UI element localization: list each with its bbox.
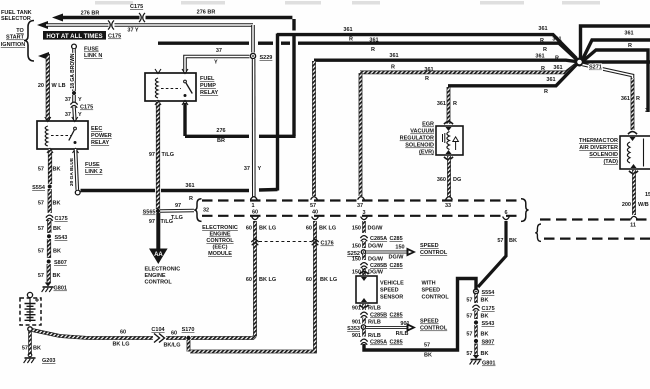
wire 361 R line A (277, 34, 577, 137)
wire 60 BK LG pin 40 down (190, 221, 315, 352)
svg-text:1: 1 (251, 203, 254, 209)
connector C104 (151, 327, 165, 343)
svg-text:S543: S543 (482, 321, 495, 327)
svg-text:361: 361 (553, 65, 562, 71)
svg-text:361: 361 (621, 96, 630, 102)
pin 6 (503, 210, 510, 220)
splice S565 (143, 209, 161, 216)
dashed connector line 1 right (540, 218, 650, 220)
label 361 R lower (185, 183, 194, 202)
label 361 R line B (369, 37, 561, 54)
svg-text:361: 361 (437, 101, 446, 107)
svg-text:R: R (636, 96, 640, 102)
svg-text:60: 60 (252, 210, 258, 216)
svg-text:57: 57 (38, 249, 44, 255)
wire 97 T/LG relay to S565 (156, 101, 160, 209)
splice S170 (182, 327, 195, 340)
svg-text:S554: S554 (482, 290, 496, 296)
wire 20 W LB (38, 52, 49, 120)
svg-text:ENGINE: ENGINE (145, 273, 166, 279)
svg-text:97: 97 (149, 219, 155, 225)
ground G203 (24, 353, 56, 364)
svg-text:R/LB: R/LB (368, 306, 381, 312)
svg-text:C285: C285 (390, 340, 403, 346)
wire 361 R to TAD (583, 65, 633, 131)
svg-text:276 BR: 276 BR (197, 10, 216, 16)
label 200 W/B (622, 202, 649, 208)
pin 40 (312, 210, 319, 220)
svg-text:DG/W: DG/W (389, 255, 405, 261)
svg-text:S271: S271 (589, 65, 602, 71)
relay EEC POWER RELAY box (37, 117, 88, 153)
scan noise top edge (95, 1, 600, 5)
svg-text:361: 361 (552, 37, 561, 43)
svg-text:Y: Y (78, 97, 82, 103)
svg-text:G801: G801 (54, 286, 67, 292)
pin 60 (252, 210, 259, 220)
svg-text:S229: S229 (260, 55, 273, 61)
svg-text:(EEC): (EEC) (213, 245, 228, 251)
label 60 BK LG (pin40 top) (306, 226, 336, 232)
svg-text:REGULATOR: REGULATOR (400, 136, 434, 142)
svg-text:W LB: W LB (52, 83, 66, 89)
pin 11 (630, 216, 637, 228)
svg-text:C285A: C285A (370, 236, 387, 242)
svg-text:11: 11 (630, 223, 636, 229)
svg-text:C175: C175 (482, 306, 495, 312)
wire 901 R/LB (352, 318, 381, 326)
svg-text:6: 6 (504, 210, 507, 216)
svg-text:RELAY: RELAY (200, 90, 218, 96)
svg-text:BK: BK (481, 332, 489, 338)
arrow 150 DG/W to speed control (366, 245, 416, 261)
wire 361 R line E (448, 65, 577, 86)
label S271 (589, 65, 602, 71)
solenoid EGR VACUUM REGULATOR (EVR) box (436, 122, 463, 160)
svg-text:57: 57 (310, 203, 316, 209)
label ELECTRONIC ENGINE CONTROL (EEC) MODULE (202, 225, 238, 257)
wire 37 Y relay to S229 (185, 57, 250, 73)
svg-text:60: 60 (246, 226, 252, 232)
splice S252 (347, 250, 366, 257)
svg-text:150: 150 (352, 226, 361, 232)
svg-text:ELECTRONIC: ELECTRONIC (202, 225, 238, 231)
svg-text:WITH: WITH (422, 281, 436, 287)
label FUEL TANK SELECTOR (1, 10, 32, 22)
label 37 Y lower (244, 166, 262, 172)
right section bracket (535, 224, 541, 241)
wire 150 DG/W (352, 241, 384, 250)
svg-text:POWER: POWER (91, 133, 112, 139)
wire 57 BK (38, 264, 61, 283)
label VEHICLE SPEED SENSOR (380, 281, 404, 301)
svg-text:57: 57 (38, 226, 44, 232)
label SPEED CONTROL lower (420, 319, 448, 332)
svg-text:37: 37 (65, 112, 71, 118)
svg-text:20: 20 (38, 83, 44, 89)
svg-text:ENGINE: ENGINE (209, 232, 230, 238)
label FUEL PUMP RELAY (200, 76, 218, 96)
label TO START IGNITION (1, 28, 25, 48)
fuel pump relay contact (161, 80, 192, 97)
svg-text:VEHICLE: VEHICLE (380, 281, 404, 287)
label 361 R line C (389, 53, 559, 71)
wire 361 R right line 1 (581, 26, 650, 59)
svg-text:CONTROL: CONTROL (206, 238, 234, 244)
wire 57 BK (466, 344, 488, 358)
connector C175 left chain top (70, 95, 93, 111)
svg-text:DG/W: DG/W (368, 226, 384, 232)
svg-text:TO: TO (16, 28, 24, 34)
splice S229 (250, 53, 272, 61)
svg-text:C285B: C285B (370, 263, 387, 269)
svg-text:SPEED: SPEED (422, 288, 441, 294)
EEC power relay coil (45, 126, 48, 146)
pin 33 (445, 197, 452, 209)
svg-text:BK LG: BK LG (319, 226, 336, 232)
wire S170 to pin 60 riser (191, 336, 255, 338)
splice S543 left (47, 234, 67, 241)
svg-text:C175: C175 (130, 4, 143, 10)
solenoid THERMACTOR AIR DIVERTER (TAD) box (620, 132, 650, 174)
label 361 R line E (544, 77, 556, 95)
svg-text:361: 361 (389, 53, 398, 59)
fuel pump relay coil (155, 78, 158, 98)
svg-text:R: R (391, 65, 395, 71)
label 97 T/LG below S565 (149, 219, 173, 225)
svg-text:S565: S565 (143, 210, 156, 216)
label ELECTRONIC ENGINE CONTROL (left) (145, 267, 181, 286)
svg-text:BK: BK (424, 353, 432, 359)
svg-text:BK: BK (481, 314, 489, 320)
label 15 fragment (645, 192, 650, 198)
svg-text:G801: G801 (482, 361, 495, 367)
svg-text:S170: S170 (182, 327, 195, 333)
svg-text:VACUUM: VACUUM (410, 129, 434, 135)
svg-text:DG/W: DG/W (368, 244, 384, 250)
svg-text:BK LG: BK LG (320, 277, 337, 283)
EEC power relay contact (51, 127, 77, 144)
svg-text:150: 150 (352, 270, 361, 276)
svg-text:150: 150 (395, 245, 404, 251)
wire 57 BK (38, 239, 61, 258)
svg-text:37: 37 (357, 203, 363, 209)
fuse link N (72, 44, 103, 59)
svg-text:R: R (543, 47, 547, 53)
svg-text:R: R (453, 101, 457, 107)
label 37 Y mid (214, 48, 222, 66)
label 361 R line A (343, 26, 547, 44)
svg-text:15: 15 (645, 192, 650, 198)
label 37 Y below C175 (65, 112, 82, 118)
svg-text:R: R (555, 56, 559, 62)
svg-text:SPEED: SPEED (420, 243, 439, 249)
svg-text:361: 361 (538, 26, 547, 32)
box HOT AT ALL TIMES (43, 31, 106, 40)
svg-text:R: R (541, 66, 545, 72)
svg-text:IGNITION: IGNITION (1, 42, 25, 48)
svg-text:BK: BK (53, 201, 61, 207)
svg-text:FUSE: FUSE (84, 47, 99, 53)
fuse link 2 (75, 162, 102, 195)
svg-text:LINK 2: LINK 2 (85, 169, 102, 175)
svg-text:361: 361 (185, 183, 194, 189)
svg-text:W/B: W/B (638, 202, 649, 208)
label 97 T.LG pin 32 branch (171, 203, 183, 221)
svg-text:PUMP: PUMP (200, 83, 216, 89)
label 360 DG (437, 177, 461, 183)
svg-text:97: 97 (175, 203, 181, 209)
svg-text:BR: BR (217, 138, 225, 144)
wire 150 DG/W (352, 254, 384, 263)
svg-text:C104: C104 (151, 327, 165, 333)
svg-text:SOLENOID: SOLENOID (589, 152, 618, 158)
label 60 BK LG (pin60 top) (246, 226, 276, 232)
svg-text:C175: C175 (55, 216, 68, 222)
svg-text:SPEED: SPEED (420, 319, 439, 325)
svg-text:901: 901 (352, 320, 361, 326)
label 60 BK LG (pin40 mid) (306, 277, 337, 283)
EEC module right bracket (521, 199, 529, 222)
relay FUEL PUMP RELAY box (145, 69, 196, 105)
node below sender (28, 327, 32, 331)
wire S170 down to pin 40 run (187, 340, 191, 352)
svg-text:R/LB: R/LB (368, 320, 381, 326)
wire 20 GA BLUE (69, 149, 77, 190)
pin 37 (357, 197, 364, 209)
splice S271 (576, 59, 583, 66)
label 361 R TAD (621, 96, 640, 102)
wire 361 R line D (hatched) (360, 64, 577, 73)
svg-text:DG: DG (453, 177, 461, 183)
label 276 BR (left) (81, 11, 100, 17)
splice S554 right (474, 289, 496, 296)
wire 360 DG EGR to pin 33 (447, 156, 451, 197)
connector C175 left ground chain (46, 215, 68, 222)
svg-text:SELECTOR: SELECTOR (1, 16, 31, 22)
connector C285B C285 lower (360, 312, 402, 318)
svg-text:CONTROL: CONTROL (420, 250, 448, 256)
svg-text:R/LB: R/LB (368, 333, 381, 339)
svg-text:57: 57 (38, 167, 44, 173)
svg-text:361: 361 (369, 38, 378, 44)
wire 37 Y S229 to EEC pin 1 (252, 59, 256, 197)
EEC module left bracket (194, 199, 201, 222)
label 150 DG/W (352, 226, 383, 232)
svg-text:C176: C176 (321, 241, 334, 247)
svg-text:BK LG: BK LG (112, 342, 129, 348)
svg-text:60: 60 (306, 226, 312, 232)
svg-text:BK: BK (53, 249, 61, 255)
connector C176 right half (311, 240, 333, 247)
splice on 18 GA BROWN (72, 91, 76, 95)
svg-text:BK: BK (53, 226, 61, 232)
svg-text:60: 60 (246, 277, 252, 283)
EEC module connector dashed line 1 (202, 199, 522, 201)
svg-text:57: 57 (466, 314, 472, 320)
svg-text:20 GA BLUE: 20 GA BLUE (69, 157, 75, 186)
svg-text:CONTROL: CONTROL (145, 280, 173, 286)
svg-text:S353: S353 (347, 326, 360, 332)
svg-text:R: R (371, 47, 375, 53)
svg-text:(EVR): (EVR) (419, 150, 434, 156)
svg-text:BK: BK (481, 298, 489, 304)
label 276 BR on drop to fuel pump relay (216, 128, 225, 144)
svg-text:60: 60 (120, 330, 126, 336)
svg-text:360: 360 (437, 177, 446, 183)
splice S807 left (47, 260, 67, 267)
connector C285B C285 upper (360, 263, 402, 269)
label WITH SPEED CONTROL (422, 281, 450, 301)
svg-text:SOLENOID: SOLENOID (405, 143, 434, 149)
wire 57 BK (466, 294, 488, 304)
svg-text:C285: C285 (390, 313, 403, 319)
svg-text:57: 57 (22, 346, 28, 352)
svg-text:37: 37 (216, 48, 222, 54)
EEC module connector dashed line 2 (202, 215, 522, 217)
svg-text:60: 60 (306, 277, 312, 283)
label 97 T/LG (149, 152, 174, 158)
connector C175 right chain (472, 305, 494, 312)
splice S543 right (474, 320, 494, 327)
svg-text:150: 150 (352, 244, 361, 250)
arrow AA electronic engine control (149, 213, 168, 264)
svg-text:3: 3 (645, 108, 648, 114)
svg-text:SENSOR: SENSOR (380, 295, 403, 301)
svg-text:BK: BK (33, 346, 41, 352)
svg-text:150: 150 (352, 257, 361, 263)
wire 361 R fuse link 2 to riser (81, 136, 278, 191)
wire 57 BK (466, 325, 488, 338)
svg-text:CONTROL: CONTROL (420, 326, 448, 332)
ground G801 right (470, 355, 496, 367)
svg-text:MODULE: MODULE (208, 251, 232, 257)
wire 361 R right line 4 (584, 60, 650, 63)
svg-text:Y: Y (214, 60, 218, 66)
svg-text:33: 33 (445, 203, 451, 209)
svg-text:BK LG: BK LG (259, 277, 276, 283)
svg-text:BK LG: BK LG (259, 226, 276, 232)
svg-text:FUEL: FUEL (200, 76, 215, 82)
svg-text:AA: AA (154, 252, 163, 258)
svg-text:EGR: EGR (422, 122, 434, 128)
wire 57 BK return loop (364, 279, 476, 351)
svg-text:R/LB: R/LB (396, 331, 409, 337)
label 60 BK LG (pin60 mid) (246, 277, 276, 283)
svg-text:C285: C285 (390, 236, 403, 242)
svg-text:DG/W: DG/W (368, 257, 384, 263)
svg-text:LINK N: LINK N (84, 53, 102, 59)
svg-text:S543: S543 (55, 235, 68, 241)
wire pin 57 up to 361R line C (312, 61, 316, 196)
svg-text:SPEED: SPEED (380, 288, 399, 294)
svg-text:3: 3 (362, 210, 365, 216)
pin 3 (361, 210, 368, 220)
svg-text:THERMACTOR: THERMACTOR (579, 138, 618, 144)
sensor VEHICLE SPEED SENSOR box (356, 272, 377, 308)
label 3.. fragment right edge (645, 108, 648, 114)
splice S554 left (32, 185, 52, 192)
wire 18 GA BROWN (70, 49, 76, 91)
sender element (25, 298, 40, 322)
splice S807 right (474, 339, 494, 346)
svg-text:60: 60 (171, 331, 177, 337)
svg-text:57: 57 (497, 238, 503, 244)
wire 361 R right line 3 (583, 50, 648, 112)
svg-text:CONTROL: CONTROL (422, 295, 450, 301)
svg-text:40: 40 (312, 210, 318, 216)
label SPEED CONTROL upper (420, 243, 448, 256)
svg-text:AIR DIVERTER: AIR DIVERTER (579, 145, 618, 151)
svg-text:901: 901 (352, 306, 361, 312)
svg-text:C175: C175 (80, 105, 93, 111)
label 57 BK pin 6 (497, 238, 517, 244)
brace for to-start-ignition (24, 21, 34, 62)
svg-text:R: R (628, 43, 632, 49)
svg-text:97: 97 (149, 152, 155, 158)
svg-text:S554: S554 (32, 185, 46, 191)
svg-text:37 Y: 37 Y (127, 28, 139, 34)
wire 361 R right line 2 (583, 40, 650, 60)
svg-text:361: 361 (624, 31, 633, 37)
wire 57 BK from pin 6 (478, 221, 506, 287)
wire 57 BK (38, 189, 61, 213)
svg-text:276 BR: 276 BR (81, 11, 100, 17)
wire pin 37 up to 361R line D (359, 73, 363, 196)
svg-text:57: 57 (38, 201, 44, 207)
svg-text:32: 32 (203, 208, 209, 214)
wire 150 DG/W into sensor (352, 268, 384, 276)
svg-text:EEC: EEC (91, 126, 102, 132)
label EGR VACUUM REGULATOR SOLENOID (EVR) (400, 122, 435, 156)
wire 361 R line B (158, 43, 577, 60)
splice S353 (347, 325, 366, 332)
svg-text:ELECTRONIC: ELECTRONIC (145, 267, 181, 273)
svg-text:BK: BK (481, 351, 489, 357)
svg-text:361: 361 (535, 54, 544, 60)
svg-text:57: 57 (424, 343, 430, 349)
svg-text:57: 57 (466, 332, 472, 338)
svg-text:Y: Y (78, 112, 82, 118)
svg-text:R: R (425, 76, 429, 82)
label 37 Y (top) (127, 28, 139, 34)
svg-text:361: 361 (546, 77, 555, 83)
svg-text:BK: BK (53, 273, 61, 279)
svg-text:Y: Y (258, 166, 262, 172)
wire 37 Y to start ignition (37, 21, 253, 53)
svg-text:T/LG: T/LG (161, 219, 174, 225)
svg-text:RELAY: RELAY (91, 140, 109, 146)
label 361 R EGR (437, 101, 457, 107)
svg-text:G203: G203 (42, 358, 55, 364)
svg-text:200: 200 (622, 202, 631, 208)
svg-text:57: 57 (466, 351, 472, 357)
arrow 901 R/LB to speed control (366, 321, 416, 337)
svg-text:R: R (544, 89, 548, 95)
wire 57 BK (38, 220, 61, 233)
pin 1 (250, 197, 257, 209)
connector C175 on 276 BR (130, 4, 146, 23)
label 60 BK LG (left) (112, 330, 129, 348)
ground G801 left (42, 283, 67, 293)
svg-text:37: 37 (244, 166, 250, 172)
svg-text:C285B: C285B (370, 313, 387, 319)
wire 37 Y into EEC power relay (72, 107, 76, 120)
connector C176 left half (251, 240, 258, 246)
svg-text:S807: S807 (54, 260, 67, 266)
svg-text:S807: S807 (482, 340, 495, 346)
svg-text:C285A: C285A (370, 340, 387, 346)
